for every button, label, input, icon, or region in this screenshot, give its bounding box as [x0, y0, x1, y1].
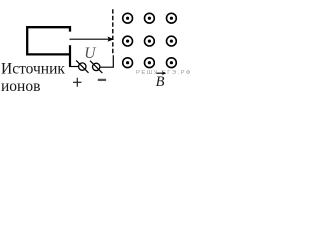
svg-text:B: B	[156, 74, 165, 90]
svg-text:U: U	[84, 45, 97, 62]
svg-text:ионов: ионов	[1, 78, 40, 95]
svg-text:Источник: Источник	[1, 61, 65, 78]
